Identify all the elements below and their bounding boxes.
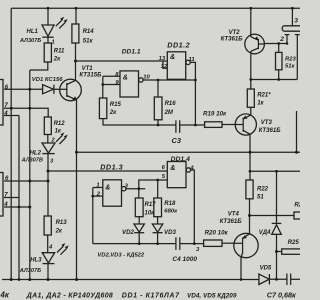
wire VD3 to rail243 [157,233,159,244]
diode VD4 [272,223,282,234]
wire DA1 pin4 line [4,115,19,117]
svg-text:R14: R14 [83,29,95,35]
wire rail y79.5 [251,79,297,81]
wire connector contact2 lead [286,35,288,44]
wire bottom rail right of C7 [291,278,300,280]
wire R11 bottom jog to x30 column [30,62,48,70]
wire bottom rail between VD5 and C7 [269,278,287,280]
resistor R15 [99,98,106,119]
svg-text:R19 10к: R19 10к [203,110,227,117]
svg-text:R15: R15 [110,102,122,108]
diode VD5 [259,274,270,285]
svg-text:R12: R12 [54,121,66,127]
svg-text:DD1.4: DD1.4 [171,156,190,163]
svg-text:VД4: VД4 [259,230,271,236]
wire VD1 to VT1 base [54,88,60,90]
wire x19 column [18,116,20,280]
resistor R21 [247,89,254,107]
svg-text:R18: R18 [164,201,176,207]
svg-text:VD3: VD3 [164,229,176,236]
wire R23 bottom lead [278,70,280,80]
wire DD1.2 output down to rail125 [190,62,195,125]
wire DD1.3 output line [126,188,145,190]
connector BF1 plug bar [282,26,302,31]
svg-text:HL2: HL2 [30,150,42,156]
wire R14 bottom to VT1 collector node [75,43,77,81]
wire DD1.1 pin8 line [103,75,120,77]
wire top supply rail [11,7,300,9]
wire connector right contact lead to rail79 [296,35,298,80]
wire DD1.1 output line [143,79,195,81]
wire DD1.3 out down to R17 [138,189,140,198]
svg-text:13: 13 [159,56,166,62]
wire rail y171.3 right [250,170,300,172]
diode VD3 [152,224,162,233]
wire DD1.3 input vertical [92,188,94,244]
svg-text:R23: R23 [285,56,297,62]
wire HL1 column top [47,8,49,25]
wire VT4 emitter node to R24 [250,215,295,217]
wire R18 to VD3 [157,217,159,224]
svg-text:2М: 2М [164,110,174,116]
svg-text:2к: 2к [109,110,117,116]
resistor R25 (cut at right edge) [282,249,302,254]
transistor VT4 [234,233,258,257]
svg-text:2: 2 [50,138,55,144]
svg-text:VD1 КС156: VD1 КС156 [32,77,63,83]
svg-text:10к: 10к [145,210,156,216]
resistor R23 [276,52,283,69]
svg-text:HL1: HL1 [27,29,39,35]
svg-text:АЛ307Б: АЛ307Б [19,38,41,44]
op-amp DA1 (left edge, cut off) [0,80,9,126]
wire DA1 pin7 line to R12 top [4,108,48,117]
wire left main vertical [10,8,12,279]
wire VT2 base line [264,43,287,45]
svg-text:DD1 - К176ЛА7: DD1 - К176ЛА7 [122,293,180,300]
capacitor C3 [176,120,180,133]
svg-text:VT4: VT4 [228,211,240,217]
wire DA1 pin6 line to VD1 [4,88,43,90]
resistor R14 [72,24,79,43]
svg-text:VD2: VD2 [122,229,134,236]
svg-text:&: & [105,184,110,191]
diode VD2 [134,224,144,233]
op-amp DA2 (left edge, cut off) [0,173,9,217]
svg-text:680к: 680к [164,209,178,215]
svg-text:4: 4 [48,245,53,251]
connector contact 2 tick [285,34,290,36]
wire R22 bottom to VT4 emitter [249,199,251,234]
LED HL3 [42,243,69,264]
resistor R16 [154,97,162,120]
wire VD4 bottom to rail with R25 node [276,234,278,279]
svg-text:4: 4 [189,166,194,172]
wire VT2 emitter feed [250,8,252,37]
wire R19 to VT3 base [222,124,235,126]
svg-text:R21*: R21* [257,93,271,99]
svg-text:R16: R16 [165,101,177,107]
svg-text:С7 0,68к: С7 0,68к [267,291,296,300]
svg-text:R17: R17 [145,202,157,208]
wire connector pin3 [291,8,293,26]
wire rail243 left of C4 [93,243,176,245]
svg-text:51к: 51к [83,39,94,45]
svg-text:2: 2 [279,36,284,43]
resistor R13 [44,216,51,235]
svg-text:С3: С3 [172,136,182,145]
wire DD1.1 input vertical [102,76,104,98]
resistor R11 [44,43,51,62]
svg-text:КТ315Б: КТ315Б [79,72,102,79]
resistor R17 [135,198,143,217]
zener VD1 [43,85,54,94]
svg-text:КТ361Б: КТ361Б [259,127,282,134]
wire rail to DD1.2 pin13 [76,60,168,62]
LED HL2 [42,132,68,153]
wire DA2 pin6 line [4,180,48,182]
svg-text:1к: 1к [257,101,264,107]
wire VT1 emitter column [76,100,78,280]
svg-text:4к: 4к [0,291,10,300]
svg-text:51к: 51к [285,64,296,70]
svg-text:HL3: HL3 [30,257,42,263]
wire R16 bottom lead [157,120,159,125]
wire VT2 collector to rail79 and R21 [250,51,252,89]
resistor R18 [154,198,162,217]
svg-text:10: 10 [143,74,150,80]
svg-text:КТ361Б: КТ361Б [220,218,243,225]
wire x30 column [29,70,31,280]
svg-text:DD1.3: DD1.3 [100,162,123,171]
logic gate DD1.1 [120,71,143,97]
svg-text:С4 1000: С4 1000 [172,256,197,263]
wire VD2 to rail243 [138,233,140,244]
logic gate DD1.4 [167,162,190,188]
wire R23 top lead [278,44,280,53]
wire bottom common rail left part [2,279,259,281]
svg-text:DD1.2: DD1.2 [167,40,190,49]
LED HL1 [42,17,68,37]
svg-text:12: 12 [161,64,168,70]
resistor R22 [246,180,253,199]
svg-text:51: 51 [257,194,264,200]
svg-text:VT3: VT3 [261,120,273,126]
svg-text:R11: R11 [54,49,65,55]
wire R20 to VT4 base [222,242,234,244]
resistor R19 [205,122,222,128]
svg-text:&: & [170,165,175,172]
wire DD1.3 pin2 line [93,195,103,197]
svg-text:R20 10к: R20 10к [205,229,229,236]
svg-text:R25: R25 [288,239,300,246]
svg-text:4: 4 [3,201,8,208]
wire rail125 right of C3 to R19 [180,124,205,126]
svg-text:1: 1 [52,40,55,46]
resistor R12 [44,117,51,135]
svg-text:VD4, VD5 КД209: VD4, VD5 КД209 [187,293,237,300]
wire DD1.3 out up-jog to DD1.4 pin5 [139,180,168,189]
svg-text:R22: R22 [257,186,269,192]
wire HL3 cathode to bottom rail [47,264,49,280]
capacitor C4 [176,237,180,250]
wire R16 top lead [157,80,159,97]
svg-text:1к: 1к [55,128,62,134]
svg-text:DD1.1: DD1.1 [122,48,141,55]
logic gate DD1.2 [167,52,190,80]
wire VT4 collector to bottom rail [240,258,242,280]
transistor VT3 [235,114,256,135]
svg-text:R2: R2 [294,203,300,209]
wire DD1.4 output down to rail243 [191,170,195,244]
resistor R20 [204,240,222,246]
capacitor C7 [287,274,291,286]
svg-text:1: 1 [96,182,99,188]
wire DD1.2 pin12 jog [163,61,167,68]
svg-text:VD2,VD3 - КД522: VD2,VD3 - КД522 [97,252,145,258]
wire right edge stub [296,111,298,152]
wire R12 bottom to HL2 [47,135,49,144]
wire HL1 to R11 [47,37,49,43]
svg-text:2: 2 [96,192,101,198]
svg-text:VD5: VD5 [260,266,272,272]
transistor VT1 [60,79,82,101]
wire DD1.1 pin9 line [103,84,120,86]
svg-text:АЛ307В: АЛ307В [21,158,43,164]
wire R13 bottom to HL3 [47,235,49,253]
wire DA2 pin7 line [4,197,19,199]
wire R15 bottom corner to rail125 [103,119,176,125]
svg-text:&: & [170,54,175,61]
svg-text:3: 3 [294,17,298,24]
wire rail243 C4 to R20 [180,243,204,245]
svg-text:КТ361Б: КТ361Б [221,36,244,43]
wire HL2 node rail y171 to DD1.4 pin6 [48,170,167,172]
wire VD4 column top [276,171,278,223]
wire R17 to VD2 [138,217,140,224]
wire HL2 cathode down through node to R13 [47,153,49,216]
wire mid rail y152 [77,151,301,153]
wire DA2 pin4 line [4,206,30,208]
svg-text:&: & [123,74,128,81]
svg-text:11: 11 [189,57,195,63]
wire R18 top lead [157,180,159,198]
wire R25 lead [277,251,282,253]
logic gate DD1.3 [103,180,126,206]
svg-text:ДА1, ДА2 - КР140УД608: ДА1, ДА2 - КР140УД608 [26,293,113,300]
resistor R24 (cut at right edge) [294,212,303,219]
connector contact 3 tick [295,34,300,36]
wire VT3 collector to R22 top [249,134,251,180]
transistor VT2 [245,34,265,54]
wire R21 bottom to VT3 emitter [250,107,252,115]
svg-text:АЛ307Б: АЛ307Б [19,268,41,274]
svg-text:2к: 2к [55,228,63,234]
wire DD1.3 pin1 line [93,187,103,189]
svg-text:4: 4 [3,110,8,117]
svg-text:R13: R13 [56,220,68,226]
svg-text:2к: 2к [53,57,61,63]
wire R14 top feed [75,8,77,24]
